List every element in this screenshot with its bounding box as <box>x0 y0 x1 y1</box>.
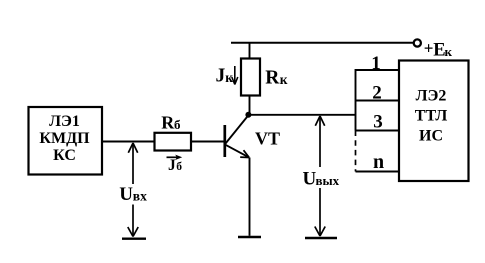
ground bar under emitter <box>238 236 261 238</box>
svg-text:вх: вх <box>133 189 147 204</box>
wire: Rб to VT base <box>191 141 225 143</box>
pin 3 <box>356 112 400 133</box>
svg-text:R: R <box>265 68 280 89</box>
svg-text:U: U <box>303 168 317 189</box>
svg-text:КМДП: КМДП <box>39 130 90 147</box>
current label Jк with down arrow <box>216 66 238 87</box>
pin 1 <box>356 53 400 74</box>
svg-text:J: J <box>216 66 226 87</box>
power rail +Ек <box>231 42 413 44</box>
measurement arrow Uвх <box>119 143 147 237</box>
logic element LE2 (ЛЭ2 ТТЛ ИС) <box>399 61 469 182</box>
label Rб <box>161 113 181 133</box>
svg-text:б: б <box>176 161 182 173</box>
svg-text:2: 2 <box>372 83 382 104</box>
current arrow Jб <box>167 155 183 174</box>
svg-text:б: б <box>174 117 181 132</box>
label Rк <box>265 68 288 89</box>
svg-text:n: n <box>373 151 384 173</box>
svg-text:VT: VT <box>255 129 280 149</box>
svg-text:КС: КС <box>53 147 76 164</box>
wire: Rк top to +Ек rail <box>249 43 251 59</box>
transistor VT <box>225 116 249 158</box>
svg-text:ЛЭ2: ЛЭ2 <box>416 88 447 105</box>
wire: collector node up to Rк <box>249 96 251 116</box>
input pin bus vertical line (solid part) <box>355 69 357 131</box>
svg-text:к: к <box>280 72 288 87</box>
ground bar under Uвых <box>305 237 337 239</box>
wire: emitter down <box>249 158 251 236</box>
input pin bus vertical line (dashed part) <box>355 131 357 172</box>
svg-text:1: 1 <box>371 53 381 74</box>
terminal +Ек <box>414 38 453 60</box>
svg-text:+: + <box>424 38 434 57</box>
label VT <box>255 129 280 149</box>
svg-text:J: J <box>168 157 176 174</box>
svg-text:к: к <box>445 44 453 59</box>
measurement arrow Uвых <box>303 116 340 236</box>
logic element LE1 (ЛЭ1 КМДП КС) <box>29 107 103 175</box>
svg-text:ТТЛ: ТТЛ <box>415 108 448 125</box>
pin 2 <box>356 83 400 104</box>
ground bar under Uвх <box>122 237 146 239</box>
wire: LE1 output to Rб <box>103 141 155 143</box>
resistor Rк <box>241 59 260 96</box>
svg-text:U: U <box>119 184 133 205</box>
node A: collector junction dot <box>245 112 251 118</box>
wire: collector node to LE2 input bus <box>248 114 355 116</box>
svg-text:вых: вых <box>316 173 340 188</box>
resistor Rб <box>155 133 192 151</box>
svg-text:ЛЭ1: ЛЭ1 <box>49 113 80 130</box>
svg-text:ИС: ИС <box>419 128 443 145</box>
svg-text:3: 3 <box>373 112 383 133</box>
pin n <box>356 151 400 173</box>
